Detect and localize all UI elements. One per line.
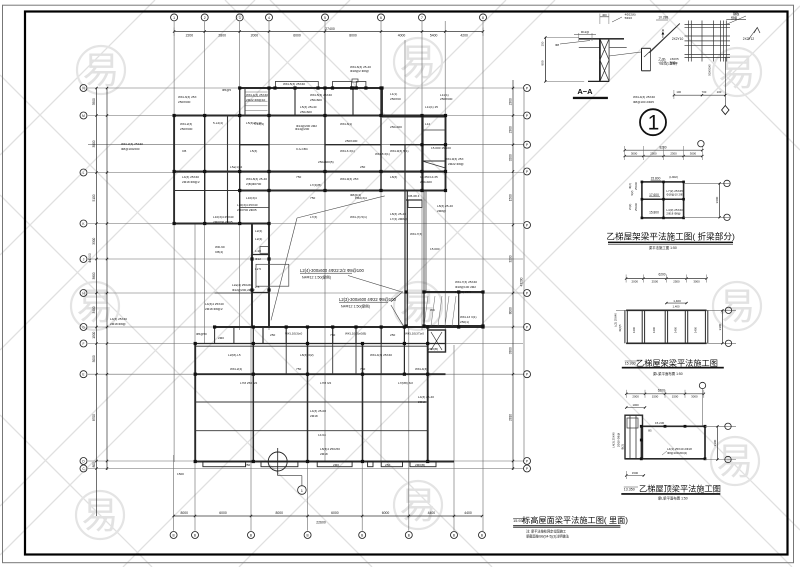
svg-text:8000: 8000 (509, 307, 513, 314)
svg-text:6200: 6200 (658, 389, 665, 393)
svg-text:2.5: 2.5 (255, 285, 260, 289)
svg-text:250x400: 250x400 (390, 125, 402, 129)
svg-text:5400: 5400 (430, 33, 438, 37)
svg-text:1500: 1500 (672, 395, 679, 399)
svg-text:250: 250 (245, 463, 250, 467)
svg-text:L5(3)25x40: L5(3)25x40 (246, 121, 262, 125)
svg-text:3000: 3000 (92, 355, 96, 362)
svg-text:WKL5(3) 25X40: WKL5(3) 25X40 (310, 93, 332, 97)
svg-text:25X40: 25X40 (634, 182, 638, 191)
svg-text:N4Φ12 1:50(梁侧): N4Φ12 1:50(梁侧) (341, 304, 370, 309)
svg-text:WKL5(3) 25X40: WKL5(3) 25X40 (283, 82, 305, 86)
svg-text:2: 2 (204, 16, 206, 20)
svg-text:L2 5: L2 5 (255, 267, 261, 271)
svg-text:750: 750 (360, 367, 365, 371)
svg-text:F: F (83, 342, 85, 346)
svg-text:L8(3)4 250x50: L8(3)4 250x50 (320, 447, 340, 451)
svg-text:3500: 3500 (92, 98, 96, 105)
svg-text:Φ8@100/200(2): Φ8@100/200(2) (667, 451, 687, 455)
svg-text:L7(3): L7(3) (310, 215, 317, 219)
svg-text:9(2): 9(2) (630, 190, 634, 195)
svg-text:2(B)Φ0700: 2(B)Φ0700 (246, 182, 261, 186)
svg-text:1500: 1500 (92, 331, 96, 338)
svg-text:760: 760 (330, 333, 335, 337)
svg-text:250: 250 (390, 333, 395, 337)
svg-text:梁L梁平面布置 1:50: 梁L梁平面布置 1:50 (658, 496, 688, 501)
svg-text:100: 100 (676, 90, 681, 94)
svg-text:WKL7(3) 25X40: WKL7(3) 25X40 (455, 280, 477, 284)
svg-text:P: P (526, 325, 528, 329)
svg-text:2300: 2300 (509, 98, 513, 105)
svg-text:Φ18@2 Φ8@: Φ18@2 Φ8@ (350, 69, 369, 73)
svg-text:L2(M)-L5: L2(M)-L5 (228, 353, 241, 357)
svg-text:8000: 8000 (276, 511, 284, 515)
svg-text:L7(4) 2Φ8@: L7(4) 2Φ8@ (390, 217, 407, 221)
svg-text:J: J (83, 257, 85, 261)
svg-text:L2a(4) 250x60: L2a(4) 250x60 (232, 283, 252, 287)
svg-text:3200: 3200 (509, 154, 513, 161)
svg-text:1500: 1500 (652, 395, 659, 399)
svg-text:750: 750 (296, 175, 301, 179)
svg-text:B: B (481, 533, 483, 537)
svg-text:CJ+CB4: CJ+CB4 (296, 147, 308, 151)
svg-text:3300: 3300 (92, 237, 96, 244)
svg-text:44000: 44000 (88, 253, 92, 263)
svg-text:1,400: 1,400 (673, 305, 680, 309)
svg-text:5-L2(4): 5-L2(4) (213, 121, 223, 125)
svg-text:WKL7(3): WKL7(3) (410, 232, 422, 236)
svg-text:8000: 8000 (349, 33, 357, 37)
svg-text:WKL8 3(1): WKL8 3(1) (375, 152, 390, 156)
svg-text:15.930: 15.930 (625, 362, 636, 366)
svg-text:WKL4(3) 25X40: WKL4(3) 25X40 (370, 353, 392, 357)
svg-text:B: B (453, 533, 455, 537)
svg-text:B: B (173, 533, 175, 537)
svg-text:2Φ18: 2Φ18 (418, 400, 426, 404)
svg-text:2000: 2000 (632, 395, 639, 399)
svg-text:5100: 5100 (92, 194, 96, 201)
svg-text:Φ5@5: Φ5@5 (222, 88, 231, 92)
svg-text:L5(3) 25x40: L5(3) 25x40 (300, 105, 317, 109)
svg-text:3000: 3000 (631, 152, 638, 156)
svg-text:L10(3)4: L10(3)4 (246, 196, 257, 200)
svg-text:Φ12@: Φ12@ (581, 30, 589, 34)
svg-text:250X60: 250X60 (390, 97, 401, 101)
svg-text:3300: 3300 (509, 347, 513, 354)
svg-text:2Φ0(B): 2Φ0(B) (428, 347, 438, 351)
svg-text:50X50X5: 50X50X5 (708, 64, 712, 76)
svg-text:4200: 4200 (460, 33, 468, 37)
svg-text:2800: 2800 (218, 33, 226, 37)
svg-text:WKL10(3)x0(B): WKL10(3)x0(B) (345, 332, 366, 336)
svg-text:WC: WC (430, 308, 436, 312)
svg-text:B: B (307, 533, 309, 537)
svg-text:L7(M8) 3/2: L7(M8) 3/2 (398, 381, 413, 385)
svg-text:WKL2(4): WKL2(4) (230, 367, 242, 371)
svg-text:6000: 6000 (293, 33, 301, 37)
svg-text:Φ(2): Φ(2) (628, 183, 632, 189)
svg-text:100: 100 (717, 90, 722, 94)
svg-text:700: 700 (702, 90, 707, 94)
svg-text:2Φ18 Φ8@2: 2Φ18 Φ8@2 (205, 307, 223, 311)
svg-text:L12(1) 2Φ0: L12(1) 2Φ0 (455, 290, 471, 294)
svg-text:250: 250 (360, 165, 365, 169)
svg-text:750: 750 (296, 367, 301, 371)
svg-text:WKL2(3): WKL2(3) (180, 122, 192, 126)
svg-text:L2(4)-300x600 4Φ22:2/2 Φ8@100: L2(4)-300x600 4Φ22:2/2 Φ8@100 (300, 268, 364, 273)
svg-text:250x400: 250x400 (420, 180, 432, 184)
svg-text:梁截面按GB(S4-5)(3)注明做法: 梁截面按GB(S4-5)(3)注明做法 (526, 534, 569, 539)
svg-text:Φ8@100/200: Φ8@100/200 (121, 147, 140, 151)
svg-text:4400: 4400 (428, 511, 436, 515)
svg-text:L11(1) 25: L11(1) 25 (425, 105, 438, 109)
svg-text:L5(3): L5(3) (250, 149, 257, 153)
svg-text:L2(3)-300x600 4Φ22 Φ8@100: L2(3)-300x600 4Φ22 Φ8@100 (339, 297, 396, 302)
svg-text:L4(3) 25X40: L4(3) 25X40 (182, 175, 199, 179)
svg-text:7: 7 (421, 16, 423, 20)
svg-text:150: 150 (541, 41, 545, 46)
svg-text:4: 4 (268, 16, 270, 20)
svg-text:易: 易 (400, 485, 437, 526)
svg-text:43200: 43200 (520, 277, 524, 286)
svg-text:WKL9(3) 5(1): WKL9(3) 5(1) (390, 149, 409, 153)
svg-text:13.350: 13.350 (624, 488, 635, 492)
svg-text:2000: 2000 (251, 33, 259, 37)
svg-text:8200: 8200 (659, 146, 666, 150)
svg-text:WKL13 3(1): WKL13 3(1) (460, 315, 477, 319)
svg-text:250(1): 250(1) (460, 320, 469, 324)
svg-text:2500: 2500 (650, 152, 657, 156)
svg-text:6: 6 (380, 16, 382, 20)
svg-text:1400: 1400 (694, 326, 698, 333)
svg-text:10.288: 10.288 (658, 16, 668, 20)
svg-text:易: 易 (82, 495, 119, 536)
svg-text:WKL10(37)x0: WKL10(37)x0 (405, 332, 424, 336)
svg-text:L4(3)4 25X40: L4(3)4 25X40 (205, 302, 224, 306)
svg-text:L8(3) 25-40: L8(3) 25-40 (437, 204, 453, 208)
svg-text:1500: 1500 (509, 194, 513, 201)
svg-text:易: 易 (83, 50, 120, 91)
svg-text:3400: 3400 (92, 306, 96, 313)
svg-text:乙梯屋架梁平法施工图: 乙梯屋架梁平法施工图 (636, 358, 718, 368)
svg-text:4000: 4000 (398, 33, 406, 37)
svg-text:L4(3) 25-08: L4(3) 25-08 (310, 409, 326, 413)
svg-text:2Φ0700 2Φ05: 2Φ0700 2Φ05 (237, 208, 257, 212)
svg-text:标高屋面梁平法施工图( 里面): 标高屋面梁平法施工图( 里面) (522, 515, 628, 525)
svg-text:K: K (82, 222, 85, 226)
svg-text:2Φ0: 2Φ0 (333, 463, 339, 467)
svg-text:3000: 3000 (690, 152, 697, 156)
svg-text:WKL1(3) 25X40: WKL1(3) 25X40 (246, 93, 268, 97)
svg-text:6000: 6000 (382, 511, 390, 515)
svg-text:2300: 2300 (509, 126, 513, 133)
svg-text:WKL8(3) 25-40: WKL8(3) 25-40 (246, 177, 267, 181)
svg-text:P: P (526, 143, 528, 147)
svg-text:L4(3) 25X40: L4(3) 25X40 (612, 432, 616, 448)
svg-text:Φ12@200,2Φ22: Φ12@200,2Φ22 (232, 288, 255, 292)
svg-text:L2(4): L2(4) (255, 237, 262, 241)
svg-text:3800: 3800 (92, 272, 96, 279)
svg-text:14.35: 14.35 (430, 175, 438, 179)
svg-text:250X600: 250X600 (180, 127, 193, 131)
svg-text:L4(3) 25X40: L4(3) 25X40 (110, 317, 127, 321)
svg-text:Φ18@10 2Φ5: Φ18@10 2Φ5 (666, 193, 684, 197)
svg-text:B: B (408, 533, 410, 537)
svg-text:A: A (662, 29, 665, 33)
svg-text:2810: 2810 (509, 414, 513, 421)
svg-text:WKL10(3)x0: WKL10(3)x0 (285, 332, 302, 336)
svg-text:750: 750 (310, 196, 315, 200)
svg-text:2Φ18 Φ8@2: 2Φ18 Φ8@2 (182, 180, 200, 184)
svg-text:P: P (526, 170, 528, 174)
svg-text:800: 800 (92, 462, 96, 468)
svg-text:17.600: 17.600 (649, 193, 659, 197)
svg-text:4400: 4400 (464, 511, 472, 515)
svg-text:3000: 3000 (691, 395, 698, 399)
svg-text:2000: 2000 (632, 280, 639, 284)
svg-text:250X600: 250X600 (440, 97, 453, 101)
svg-text:CB: CB (182, 149, 186, 153)
svg-text:Φ12: Φ12 (255, 257, 261, 261)
svg-text:L7(4)(B): L7(4)(B) (310, 183, 321, 187)
svg-text:L12: L12 (425, 122, 430, 126)
svg-text:1:20: 1:20 (255, 249, 261, 253)
svg-text:1500: 1500 (632, 471, 639, 475)
svg-text:5Φ16: 5Φ16 (625, 16, 633, 20)
svg-text:14.350: 14.350 (420, 175, 430, 179)
svg-text:B: B (361, 533, 363, 537)
svg-text:250x600: 250x600 (310, 98, 322, 102)
svg-text:L(2) 25X40: L(2) 25X40 (614, 313, 618, 327)
svg-text:2Φ18:Φ8@: 2Φ18:Φ8@ (110, 322, 126, 326)
svg-text:WKL4(3) 25X40: WKL4(3) 25X40 (633, 95, 655, 99)
svg-text:3000: 3000 (92, 140, 96, 147)
svg-text:2Φ0: 2Φ0 (218, 336, 224, 340)
svg-text:B: B (250, 533, 252, 537)
svg-text:15.800: 15.800 (649, 211, 659, 215)
svg-text:WKL9(3) 25X: WKL9(3) 25X (340, 177, 359, 181)
svg-text:3300: 3300 (718, 323, 722, 330)
svg-text:P: P (526, 291, 528, 295)
svg-text:注: 梁平法按柱网定位图施工: 注: 梁平法按柱网定位图施工 (526, 529, 567, 534)
svg-text:L4(3) 25-40: L4(3) 25-40 (418, 395, 434, 399)
svg-text:L1(1): L1(1) (390, 92, 397, 96)
svg-text:易: 易 (719, 52, 756, 93)
svg-text:8000: 8000 (181, 511, 189, 515)
svg-text:CB-08 4: CB-08 4 (408, 194, 420, 198)
svg-text:L2(4): L2(4) (255, 229, 262, 233)
svg-text:15.000 15.100: 15.000 15.100 (431, 146, 451, 150)
svg-text:L8(3) 3(2): L8(3) 3(2) (300, 353, 314, 357)
svg-text:800: 800 (541, 60, 545, 65)
svg-text:2Φ0700 2Φ05: 2Φ0700 2Φ05 (213, 220, 233, 224)
svg-text:3600: 3600 (715, 196, 719, 203)
svg-text:250x400(5): 250x400(5) (318, 160, 334, 164)
svg-text:梁平法施工图 1:50: 梁平法施工图 1:50 (649, 245, 677, 250)
svg-text:P: P (526, 373, 528, 377)
svg-text:D: D (82, 459, 85, 463)
svg-text:2Φ22 Φ8@: 2Φ22 Φ8@ (448, 162, 464, 166)
svg-text:1400: 1400 (652, 326, 656, 333)
svg-text:P: P (526, 223, 528, 227)
svg-text:易: 易 (719, 286, 756, 327)
svg-text:250X400: 250X400 (345, 139, 358, 143)
svg-text:1400: 1400 (673, 326, 677, 333)
svg-text:2Φ22 Φ8@10: 2Φ22 Φ8@10 (246, 98, 266, 102)
svg-text:L: L (83, 171, 85, 175)
svg-text:2300: 2300 (670, 152, 677, 156)
svg-text:E: E (82, 373, 84, 377)
svg-text:1,400: 1,400 (673, 299, 681, 303)
svg-text:3000: 3000 (693, 280, 700, 284)
svg-text:B: B (194, 533, 196, 537)
svg-text:PBA(3)4: PBA(3)4 (355, 196, 367, 200)
svg-text:P: P (526, 114, 528, 118)
svg-text:WKL6 3(1): WKL6 3(1) (340, 149, 355, 153)
svg-text:Φ18@100 2Φ2: Φ18@100 2Φ2 (455, 285, 476, 289)
svg-text:Φ340: Φ340 (670, 61, 678, 65)
svg-text:1: 1 (648, 112, 660, 135)
svg-text:1400: 1400 (632, 326, 636, 333)
svg-text:15.000: 15.000 (430, 247, 440, 251)
svg-text:250x600: 250x600 (300, 110, 312, 114)
svg-text:(L902): (L902) (669, 175, 678, 179)
svg-text:P: P (526, 467, 528, 471)
svg-text:6200: 6200 (658, 272, 665, 276)
svg-text:Φ(2): Φ(2) (621, 444, 625, 450)
svg-text:CB(4): CB(4) (215, 250, 223, 254)
svg-text:8700: 8700 (92, 414, 96, 421)
svg-text:WKL2(3) 25X40: WKL2(3) 25X40 (121, 142, 143, 146)
svg-text:WKL(3) 5(1): WKL(3) 5(1) (350, 215, 367, 219)
svg-text:5: 5 (324, 16, 326, 20)
svg-text:P: P (526, 459, 528, 463)
svg-text:15.230: 15.230 (655, 421, 665, 425)
svg-text:2Φ18: 2Φ18 (320, 452, 328, 456)
svg-text:2500: 2500 (673, 280, 680, 284)
svg-text:14.64: 14.64 (318, 433, 326, 437)
svg-text:27400: 27400 (325, 27, 335, 31)
svg-text:8: 8 (482, 16, 484, 20)
svg-text:25X40: 25X40 (634, 203, 638, 212)
svg-text:A−A: A−A (577, 87, 593, 96)
svg-text:250X600: 250X600 (178, 100, 191, 104)
svg-text:WD-90: WD-90 (215, 245, 225, 249)
svg-text:250: 250 (385, 463, 390, 467)
svg-text:1500: 1500 (177, 472, 184, 476)
svg-text:2X2Y10: 2X2Y10 (672, 37, 684, 41)
svg-text:乙梯屋架梁平法施工图( 折梁部分): 乙梯屋架梁平法施工图( 折梁部分) (606, 231, 735, 242)
svg-text:3200: 3200 (509, 255, 513, 262)
svg-text:预埋: 预埋 (731, 15, 737, 20)
svg-text:2Φ0(B): 2Φ0(B) (415, 463, 425, 467)
svg-text:6000: 6000 (219, 511, 227, 515)
svg-text:2500: 2500 (652, 280, 659, 284)
svg-text:1: 1 (173, 16, 175, 20)
svg-text:Φ14@200 2Φ2: Φ14@200 2Φ2 (296, 124, 317, 128)
svg-text:L10(3)4 25X40: L10(3)4 25X40 (213, 215, 234, 219)
svg-text:Φ5: Φ5 (648, 429, 652, 433)
svg-text:WKL9(3) 25X: WKL9(3) 25X (445, 157, 464, 161)
svg-text:梁L梁平面布置 1:50: 梁L梁平面布置 1:50 (653, 371, 683, 376)
svg-text:2Φ8@: 2Φ8@ (437, 209, 446, 213)
svg-text:15.800: 15.800 (651, 177, 661, 181)
svg-text:N4Φ12 1:50(梁侧): N4Φ12 1:50(梁侧) (302, 275, 331, 280)
svg-text:22600: 22600 (316, 521, 326, 525)
svg-text:3300: 3300 (713, 439, 717, 446)
svg-text:L8(3) 25-40: L8(3) 25-40 (390, 212, 406, 216)
svg-text:Φ8: Φ8 (555, 43, 559, 47)
svg-text:L10(3)4 25X40: L10(3)4 25X40 (237, 203, 258, 207)
svg-text:L5(2): L5(2) (628, 204, 632, 211)
svg-text:1000: 1000 (632, 403, 639, 407)
svg-text:L8(3): L8(3) (390, 175, 397, 179)
svg-text:L7M 250 3/2: L7M 250 3/2 (240, 381, 257, 385)
svg-text:WKL6(1): WKL6(1) (340, 122, 352, 126)
svg-text:L7M 3/2: L7M 3/2 (320, 381, 331, 385)
svg-text:2Φ18 Φ8@: 2Φ18 Φ8@ (666, 212, 680, 216)
svg-text:WKL3(3) 25X: WKL3(3) 25X (178, 95, 197, 99)
svg-text:400: 400 (602, 13, 607, 17)
svg-text:易: 易 (717, 441, 754, 482)
svg-text:Φ8@100 2Φ25: Φ8@100 2Φ25 (633, 100, 654, 104)
svg-text:2Φ18: 2Φ18 (310, 414, 318, 418)
svg-text:乙梯屋顶梁平法施工图: 乙梯屋顶梁平法施工图 (639, 484, 721, 494)
svg-text:P: P (526, 86, 528, 90)
svg-text:M: M (82, 114, 85, 118)
svg-text:1: 1 (301, 488, 304, 493)
svg-text:Φ(2)5: Φ(2)5 (618, 324, 622, 332)
svg-text:WKL4(3): WKL4(3) (415, 367, 427, 371)
svg-text:6000: 6000 (331, 511, 339, 515)
svg-text:L5a(1)x2: L5a(1)x2 (230, 165, 242, 169)
svg-text:3: 3 (239, 16, 241, 20)
svg-text:2200: 2200 (186, 33, 194, 37)
svg-text:Φ5@50: Φ5@50 (196, 332, 207, 336)
svg-text:250: 250 (270, 333, 275, 337)
